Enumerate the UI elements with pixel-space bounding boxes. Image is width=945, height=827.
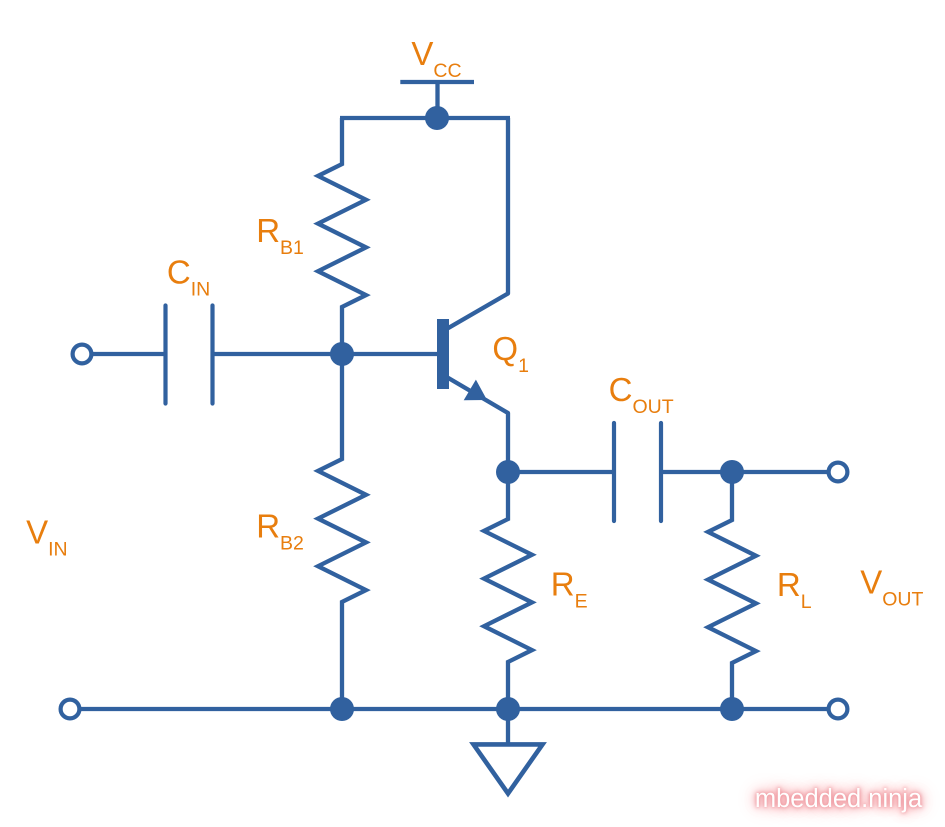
svg-text:VOUT: VOUT xyxy=(860,564,923,611)
terminal output xyxy=(829,463,848,482)
ground stub xyxy=(506,709,510,744)
transistor Q1 emitter xyxy=(448,378,509,472)
junction ground RL xyxy=(720,697,744,721)
svg-text:COUT: COUT xyxy=(609,371,674,418)
junction VCC node xyxy=(425,106,449,130)
wire emitter node to COUT xyxy=(508,470,612,474)
svg-text:RB1: RB1 xyxy=(256,212,304,259)
resistor RE xyxy=(484,471,532,709)
wire base xyxy=(214,352,437,356)
capacitor CIN right plate xyxy=(210,306,214,404)
transistor Q1 collector xyxy=(448,118,509,329)
wire input to CIN xyxy=(93,352,164,356)
wire top rail xyxy=(340,116,510,120)
capacitor COUT left plate xyxy=(612,423,616,521)
junction base node xyxy=(330,342,354,366)
wire ground rail xyxy=(81,707,827,711)
terminal input xyxy=(73,345,92,364)
svg-text:RL: RL xyxy=(777,566,812,613)
resistor RB1 xyxy=(318,118,366,353)
svg-text:VCC: VCC xyxy=(411,35,461,82)
junction ground RE xyxy=(496,697,520,721)
junction ground RB2 xyxy=(330,697,354,721)
terminal ground left xyxy=(61,700,80,719)
svg-text:RB2: RB2 xyxy=(256,508,304,555)
ground symbol xyxy=(474,744,543,793)
terminal ground right xyxy=(829,700,848,719)
svg-text:CIN: CIN xyxy=(167,254,210,301)
svg-text:VIN: VIN xyxy=(26,514,68,561)
capacitor CIN left plate xyxy=(163,306,167,404)
resistor RB2 xyxy=(318,354,366,709)
capacitor COUT right plate xyxy=(659,423,663,521)
wire COUT to output xyxy=(663,470,827,474)
watermark mbedded.ninja xyxy=(748,785,929,814)
svg-text:Q1: Q1 xyxy=(492,330,529,377)
junction emitter node xyxy=(496,460,520,484)
wire VCC stub xyxy=(435,82,439,118)
junction output node xyxy=(720,460,744,484)
transistor Q1 emitter arrow xyxy=(464,380,487,401)
transistor Q1 base bar xyxy=(437,319,449,389)
svg-text:RE: RE xyxy=(551,566,588,613)
power supply VCC bar xyxy=(400,80,474,84)
resistor RL xyxy=(708,472,756,709)
